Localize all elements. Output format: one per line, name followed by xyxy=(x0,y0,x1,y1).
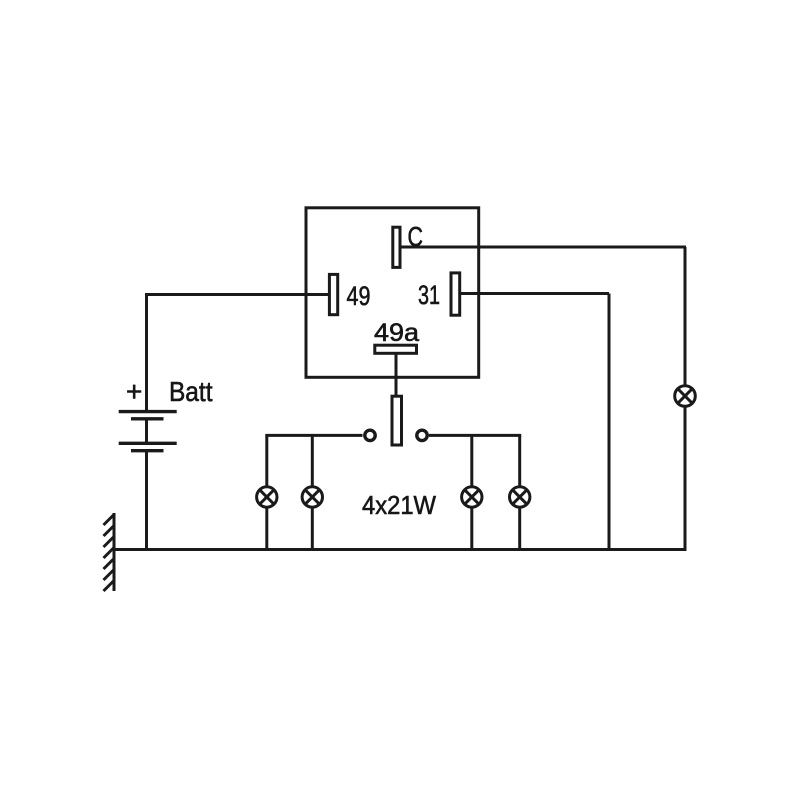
wire lamp L2 to ground bus xyxy=(311,507,314,551)
wire lamp L1 to ground bus xyxy=(265,507,268,551)
wire battery top xyxy=(145,295,148,413)
switch contact left xyxy=(365,430,375,440)
wire lamp L3 to ground bus xyxy=(470,507,473,551)
svg-text:49a: 49a xyxy=(374,319,419,347)
wire drop to lamp L2 xyxy=(311,435,314,487)
wire 31 down to ground bus xyxy=(608,294,611,552)
svg-text:31: 31 xyxy=(418,280,440,310)
lamp L4 xyxy=(510,487,530,507)
wire drop to lamp L3 xyxy=(470,435,473,487)
svg-text:Batt: Batt xyxy=(169,376,213,407)
wire lamp L4 to ground bus xyxy=(518,507,521,551)
ground symbol xyxy=(104,513,115,591)
wire switch left branch xyxy=(265,434,362,437)
wire drop to lamp L1 xyxy=(265,435,268,487)
relay box K1 xyxy=(306,208,479,377)
terminal 49 pin xyxy=(329,274,337,314)
wire C to right lamp xyxy=(401,246,686,249)
wire drop to lamp L4 xyxy=(518,435,521,487)
switch contact right xyxy=(417,430,427,440)
wire 49a to switch xyxy=(395,354,398,397)
terminal 49a pin xyxy=(375,345,417,353)
svg-text:49: 49 xyxy=(347,281,371,311)
wire right side vertical upper xyxy=(684,247,687,387)
lamp R pilot xyxy=(675,386,696,407)
wire right side vertical lower xyxy=(684,406,687,552)
svg-text:4x21W: 4x21W xyxy=(362,490,436,520)
wire 31 horizontal xyxy=(460,292,609,295)
wire battery bottom xyxy=(145,452,148,551)
wire 49 to battery xyxy=(145,293,329,296)
battery B1 xyxy=(119,412,177,451)
ground bus xyxy=(113,548,687,551)
svg-text:+: + xyxy=(126,376,142,407)
terminal 31 pin xyxy=(451,273,460,315)
lamp L2 xyxy=(302,487,322,507)
wire switch right branch xyxy=(429,434,521,437)
terminal C pin xyxy=(393,227,400,267)
switch armature bar xyxy=(392,396,402,445)
lamp L3 xyxy=(462,487,482,507)
lamp L1 xyxy=(257,487,277,507)
